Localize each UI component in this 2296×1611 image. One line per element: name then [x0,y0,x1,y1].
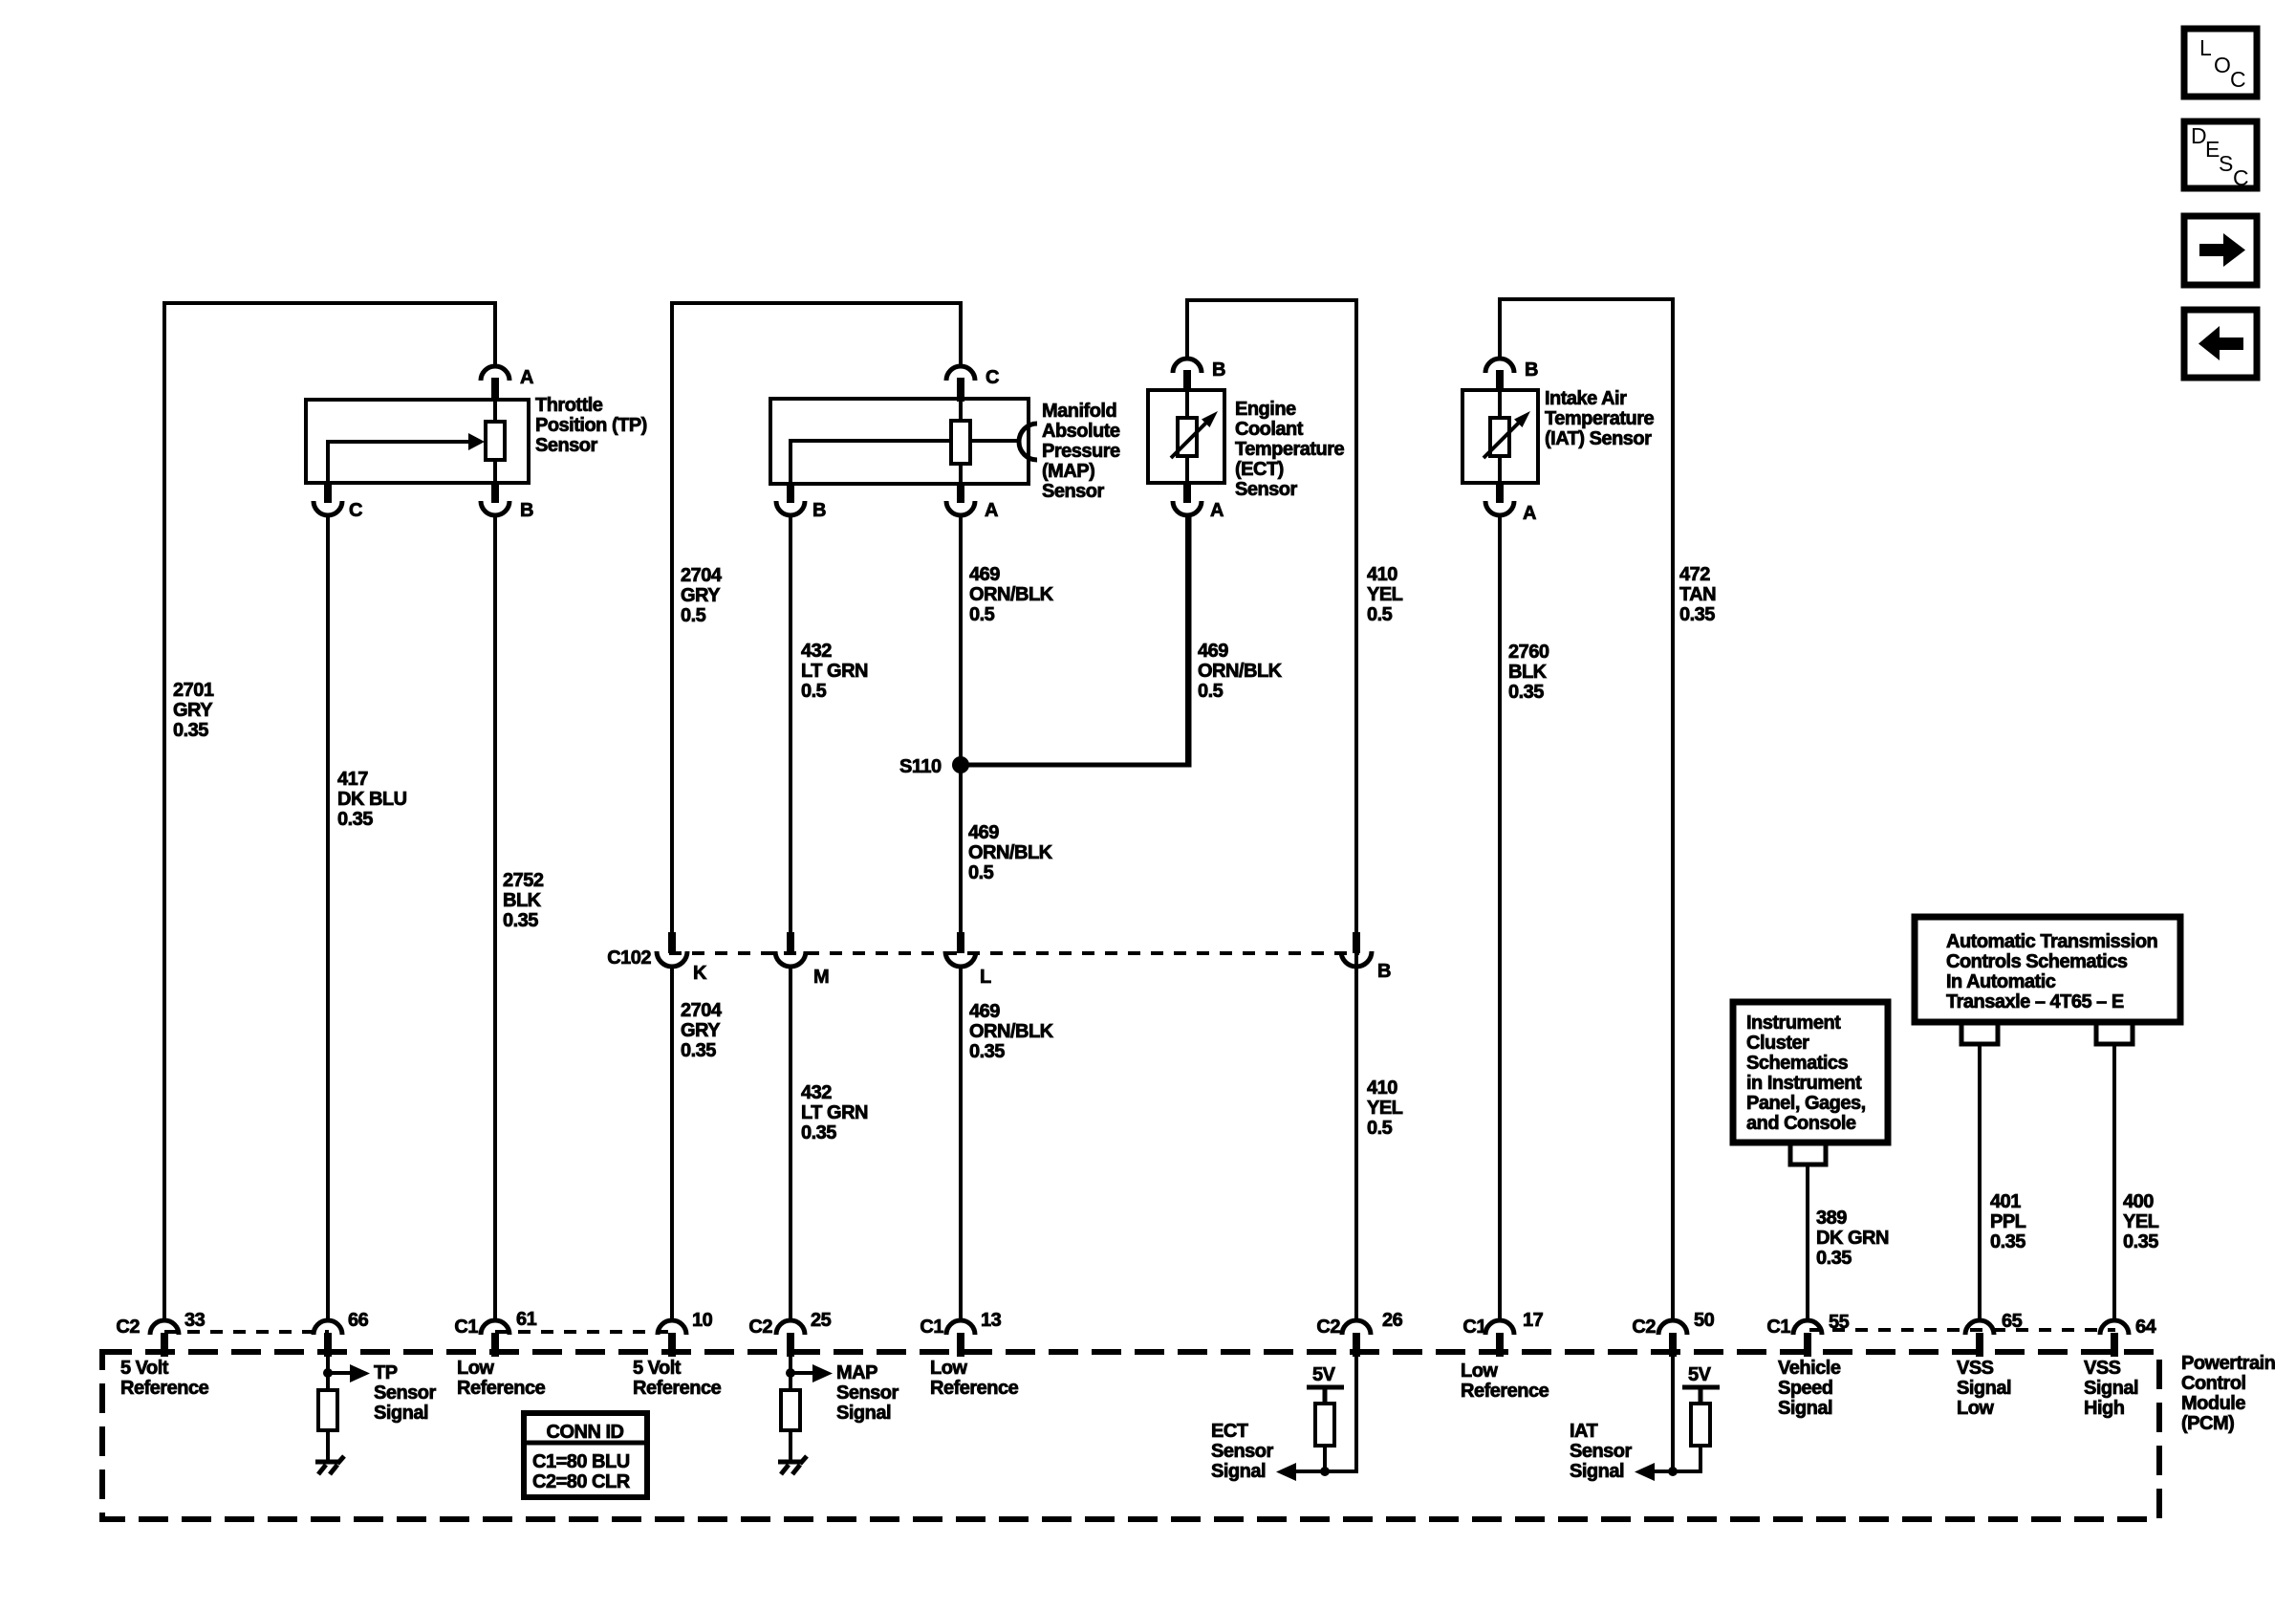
connector pin C (TP sensor) [314,481,342,515]
svg-text:L: L [2199,35,2212,60]
PCM pin 17 (C1) [1485,1320,1514,1357]
svg-text:A: A [1210,500,1224,521]
junction MAP signal [786,1368,795,1378]
wire pin C drop [959,301,963,367]
wire 432 LT GRN below C102 [789,965,792,1322]
svg-text:K: K [693,963,707,984]
svg-text:C2=80 CLR: C2=80 CLR [532,1471,631,1492]
svg-text:26: 26 [1382,1310,1403,1331]
svg-text:B: B [1212,359,1225,381]
connector pin A (IAT sensor) [1485,481,1514,515]
PCM pin 65 [1965,1320,1994,1357]
svg-text:55: 55 [1829,1312,1850,1333]
svg-text:C102: C102 [607,947,651,969]
PCM pin 26 (C2) [1342,1320,1371,1357]
horizontal wire IAT signal [1649,1469,1702,1473]
wire 410 YEL (right vertical to PCM 26) [1354,298,1358,1322]
svg-text:B: B [1525,359,1538,381]
thermistor (IAT) [1484,390,1534,483]
off-page tab (instrument cluster) [1790,1143,1826,1165]
PCM pin 13 (C1) [946,1320,975,1357]
arrow IAT sensor signal [1635,1463,1655,1481]
svg-text:25: 25 [811,1310,832,1331]
svg-text:C1: C1 [920,1317,943,1338]
svg-text:VehicleSpeedSignal: VehicleSpeedSignal [1778,1358,1841,1419]
wire TP signal inside PCM [326,1357,330,1390]
svg-text:C: C [2233,165,2249,190]
wire pin B rise (IAT) [1498,297,1502,359]
connector dashed link 61-10 [495,1330,672,1334]
wire MAP signal inside PCM [789,1357,792,1390]
wire ECT signal inside PCM [1294,1357,1356,1471]
svg-text:50: 50 [1694,1310,1715,1331]
svg-text:10: 10 [692,1310,713,1331]
resistor (TP pull-down) [318,1390,337,1430]
wire 389 DK GRN (to PCM 55) [1806,1165,1809,1322]
5V supply bar (IAT) [1682,1387,1720,1404]
PCM pin 64 [2100,1320,2129,1357]
svg-text:65: 65 [2002,1311,2023,1332]
wire pin A drop [493,301,497,367]
PCM pin 55 (C1) [1793,1320,1822,1357]
connector C102 dashed line [669,951,1359,955]
wire top horizontal MAP [670,301,961,305]
svg-text:M: M [813,967,829,988]
junction ECT signal [1320,1467,1330,1476]
TP wiper arrow [328,433,485,483]
PCM pin 66 [314,1320,342,1357]
CONN ID table [524,1413,647,1497]
wire 2704 GRY (left vertical, 5V ref) [670,301,674,936]
potentiometer (TP) [486,400,505,483]
wire resistor to junction (IAT) [1699,1446,1702,1473]
svg-text:C: C [2230,67,2246,92]
svg-text:2752BLK0.35: 2752BLK0.35 [503,870,544,931]
svg-text:C: C [986,367,999,388]
wire 401 PPL (to PCM 65) [1978,1044,1982,1322]
wire S110 to ECT pin A [961,513,1189,765]
icon box arrow right [2184,216,2257,285]
svg-text:C2: C2 [1632,1317,1656,1338]
resistor (ECT pull-up) [1315,1404,1334,1446]
icon box LOC [2184,29,2257,97]
svg-text:5V: 5V [1688,1364,1712,1385]
wire 400 YEL (to PCM 64) [2112,1044,2116,1322]
svg-text:C: C [349,500,362,521]
wire 469 ORN/BLK (pin A down) [959,513,963,936]
IAT sensor box [1462,390,1538,483]
wire top horizontal TP [162,301,495,305]
svg-text:C1: C1 [1462,1317,1486,1338]
svg-text:A: A [1523,503,1536,524]
connector C102 pin K [657,932,687,967]
wire 417 DK BLU (pin C to PCM 66) [326,513,330,1322]
svg-text:A: A [520,367,533,388]
junction IAT signal [1668,1467,1678,1476]
connector C102 pin L [945,932,976,967]
junction TP signal [323,1368,333,1378]
svg-text:5V: 5V [1312,1364,1336,1385]
wire 2760 BLK (IAT pin A to PCM 17) [1498,513,1502,1322]
svg-text:B: B [812,500,826,521]
svg-text:33: 33 [184,1310,206,1331]
connector pin B (ECT sensor) [1173,359,1202,392]
svg-text:C1: C1 [1766,1317,1790,1338]
ECT sensor box [1148,390,1224,483]
wire pin B rise (ECT) [1185,298,1189,359]
arrow MAP sensor signal [791,1364,833,1382]
connector pin B (TP sensor) [481,481,509,515]
wire resistor to junction (ECT) [1323,1446,1327,1471]
svg-text:O: O [2214,53,2231,77]
potentiometer (MAP) [951,399,970,484]
wire 2752 BLK (pin B to PCM 61) [493,513,497,1322]
wire 2704 GRY below C102 [670,965,674,1322]
svg-text:S: S [2219,151,2233,176]
wire IAT signal inside PCM [1671,1357,1675,1473]
svg-text:B: B [520,500,533,521]
wire ECT pin A down to S110 branch [1185,513,1189,765]
automatic transmission reference box [1915,917,2180,1022]
svg-text:2701GRY0.35: 2701GRY0.35 [173,680,214,741]
connector dashed link 33-66 [164,1330,329,1334]
connector pin B (IAT sensor) [1485,359,1514,392]
wire 410 YEL below C102 [1354,965,1358,1322]
MAP wiper wire [791,441,951,484]
instrument cluster reference box [1733,1002,1888,1143]
connector C102 pin B [1341,932,1372,967]
PCM pin 33 (C2) [150,1320,179,1357]
wire 472 TAN (right vertical to PCM 50) [1671,297,1675,1322]
MAP sensor box [770,399,1029,484]
5V supply bar (ECT) [1307,1387,1344,1404]
PCM pin 50 (C2) [1658,1320,1687,1357]
svg-text:A: A [985,500,998,521]
node S110 [952,756,969,773]
wire 469 ORN/BLK below C102 [959,965,963,1322]
svg-text:66: 66 [348,1310,369,1331]
ground (TP) [315,1456,344,1474]
svg-text:13: 13 [981,1310,1002,1331]
off-page tab (VSS high) [2096,1022,2133,1044]
svg-text:C1: C1 [454,1317,478,1338]
svg-text:2760BLK0.35: 2760BLK0.35 [1508,642,1549,703]
wire top horizontal IAT [1498,297,1673,301]
svg-text:C1=80 BLU: C1=80 BLU [532,1451,630,1472]
icon box arrow left [2184,310,2257,378]
PCM pin 61 (C1) [481,1320,509,1357]
resistor (MAP pull-down) [781,1390,800,1430]
wire resistor to ground (TP) [326,1430,330,1461]
MAP pressure port symbol [970,424,1037,460]
connector pin A (TP sensor) [481,366,509,381]
off-page tab (VSS low) [1961,1022,1998,1044]
svg-text:B: B [1377,961,1391,982]
svg-text:17: 17 [1523,1310,1544,1331]
TP sensor box [306,400,529,483]
svg-text:S110: S110 [899,756,942,777]
PCM pin 25 (C2) [776,1320,805,1357]
wire 2701 GRY (left vertical, 5V ref to pin A) [162,301,166,1322]
wire top horizontal ECT [1185,298,1356,302]
arrow ECT sensor signal [1276,1463,1296,1481]
svg-text:C2: C2 [116,1317,140,1338]
svg-text:61: 61 [516,1309,537,1330]
connector pin C (MAP sensor) [946,366,975,402]
connector pin A (ECT sensor) [1173,481,1202,515]
connector pin A (MAP sensor) [946,482,975,515]
svg-text:C2: C2 [748,1317,772,1338]
icon box DESC [2184,121,2257,190]
svg-text:64: 64 [2135,1317,2157,1338]
ground (MAP) [778,1456,807,1474]
svg-text:CONN ID: CONN ID [547,1422,624,1443]
wire resistor to ground (MAP) [789,1430,792,1461]
PCM pin 10 [658,1320,686,1357]
connector pin B (MAP sensor) [776,482,805,515]
connector dashed link 55-64 [1809,1328,2115,1332]
thermistor (ECT) [1171,390,1222,483]
connector C102 pin M [775,932,806,967]
svg-text:C2: C2 [1316,1317,1340,1338]
wire 432 LT GRN (pin B down) [789,513,792,936]
svg-text:L: L [980,967,991,988]
PCM dashed box [102,1352,2159,1519]
resistor (IAT pull-up) [1691,1404,1710,1446]
arrow TP sensor signal [328,1364,370,1382]
